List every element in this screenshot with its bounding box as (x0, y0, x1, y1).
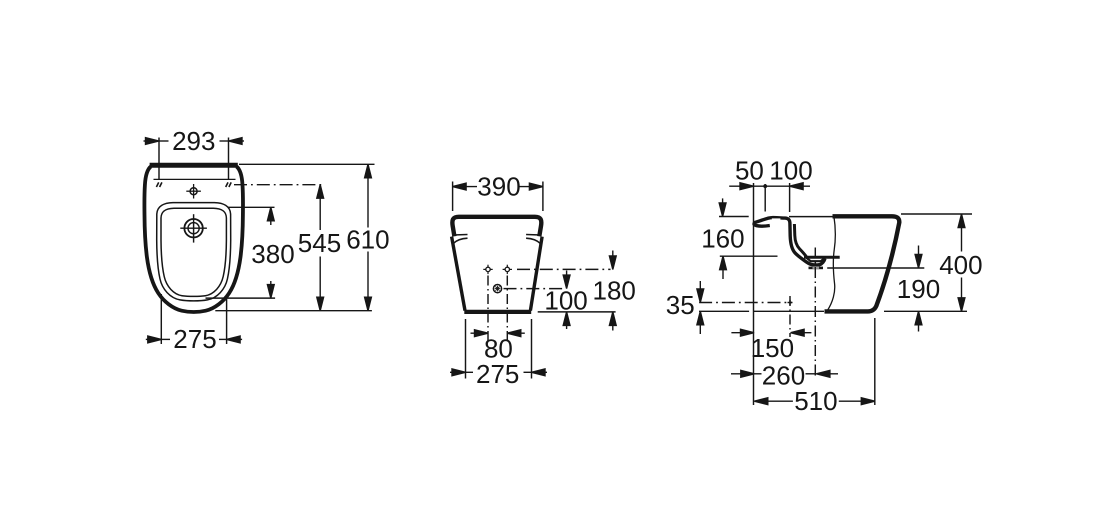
160 bottom reference line (720, 255, 778, 257)
dimension 400 (958, 214, 965, 311)
dimension 610 (365, 164, 372, 310)
rim inner line right (526, 235, 541, 244)
hole axis vertical right (506, 276, 508, 342)
thin floor line right of body (884, 310, 967, 312)
tap axis short centerline (764, 184, 766, 212)
top view back edge bar (150, 163, 238, 168)
35 floor stub line (699, 310, 749, 312)
svg-text:100: 100 (544, 286, 587, 316)
basin inner line (161, 208, 226, 296)
fixing hole right (front) (503, 265, 512, 274)
dimension 150 (731, 329, 811, 336)
svg-text:150: 150 (751, 333, 794, 363)
dimension 275 (146, 336, 242, 343)
svg-text:293: 293 (172, 126, 215, 156)
extension line 275f right (531, 319, 533, 379)
reference line body bottom (545/610) (215, 310, 372, 312)
160 top reference line (719, 216, 749, 218)
rear body outline (825, 216, 900, 311)
front view right side (530, 237, 542, 311)
drain axis dash-dot horizontal (504, 288, 563, 290)
svg-text:400: 400 (939, 250, 982, 280)
hole axis vertical left (487, 276, 489, 342)
fixing mark left (156, 182, 162, 187)
160 bottom arrow (720, 256, 727, 279)
extension line 100 right (789, 183, 791, 212)
400 top reference line (901, 213, 972, 215)
drain hole circle (front) (493, 285, 501, 293)
35 arrows (697, 281, 704, 334)
extension line 275f left (465, 319, 467, 379)
dimension 260 (731, 370, 838, 377)
floor reference line (front) (538, 311, 616, 313)
dimension 390 (453, 183, 543, 190)
dimension 100 (front) (563, 271, 570, 330)
510 right extension line (874, 318, 876, 405)
basin floor line (section) (804, 256, 840, 259)
tap hole white slot (772, 218, 781, 222)
top view outer body outline (144, 167, 243, 313)
front view left side (452, 237, 465, 311)
svg-text:50: 50 (735, 156, 764, 186)
svg-text:510: 510 (794, 386, 837, 416)
svg-text:35: 35 (666, 290, 695, 320)
drain axis dash-dot vertical (814, 248, 816, 378)
rim section inner wall line (794, 224, 806, 257)
back ledge line (154, 178, 236, 180)
35 cross mark (788, 300, 793, 305)
dimension 293 (144, 138, 245, 145)
svg-text:610: 610 (346, 225, 389, 255)
160 top arrow (719, 198, 726, 216)
reference line basin bottom (380) (206, 297, 276, 299)
fixing mark right (226, 182, 232, 187)
drain dip band (807, 258, 825, 261)
svg-text:380: 380 (251, 239, 294, 269)
break wavy line (827, 216, 835, 311)
front edge extension line (753, 183, 755, 405)
hole axis dash-dot horizontal (517, 268, 611, 270)
dimension 190 arrows (915, 246, 922, 332)
svg-text:100: 100 (769, 156, 812, 186)
dimension 545 (317, 185, 324, 311)
dimension 80 (471, 330, 525, 337)
thin floor line under bowl (754, 310, 825, 312)
inlet axis dash-dot vertical (789, 296, 791, 337)
thin connector line rim to body (789, 216, 834, 218)
centerline fixing hole right (293) (228, 138, 230, 180)
svg-text:180: 180 (593, 276, 636, 306)
svg-text:275: 275 (173, 324, 216, 354)
front view bottom edge (464, 310, 531, 314)
dash-dot hinge line (545 top) (234, 184, 325, 186)
rim section outer profile (754, 218, 825, 265)
35 dash-dot water line (699, 302, 792, 304)
rim inner line left (453, 235, 468, 244)
tap hole crosshair (180, 214, 207, 242)
extension line 390 left (452, 182, 454, 212)
tap axis dot (763, 184, 767, 188)
svg-text:190: 190 (897, 274, 940, 304)
drain grey washer (813, 266, 820, 269)
190 reference line (827, 267, 924, 269)
svg-text:390: 390 (477, 171, 520, 201)
reference line top of body (610) (239, 163, 375, 165)
svg-text:545: 545 (298, 228, 341, 258)
svg-text:275: 275 (476, 359, 519, 389)
dimension 510 (754, 398, 875, 405)
rim outer line (157, 203, 231, 301)
extension line 275 left (160, 294, 162, 344)
dimension 180 (front) (609, 251, 616, 331)
drain lower piece (809, 267, 824, 270)
front view top cap outline (452, 217, 541, 237)
extension line 275 right (226, 299, 228, 344)
dimension 50/100 line (729, 183, 810, 190)
reference line basin top (380) (228, 206, 275, 208)
extension line 390 right (542, 182, 544, 212)
fixing hole left (front) (483, 265, 492, 274)
dimension 275 (front) (450, 369, 547, 376)
small crosshair (overflow hole) (186, 184, 201, 199)
dimension 380 (267, 207, 274, 298)
svg-text:160: 160 (701, 224, 744, 254)
centerline fixing hole left (293) (158, 138, 160, 180)
